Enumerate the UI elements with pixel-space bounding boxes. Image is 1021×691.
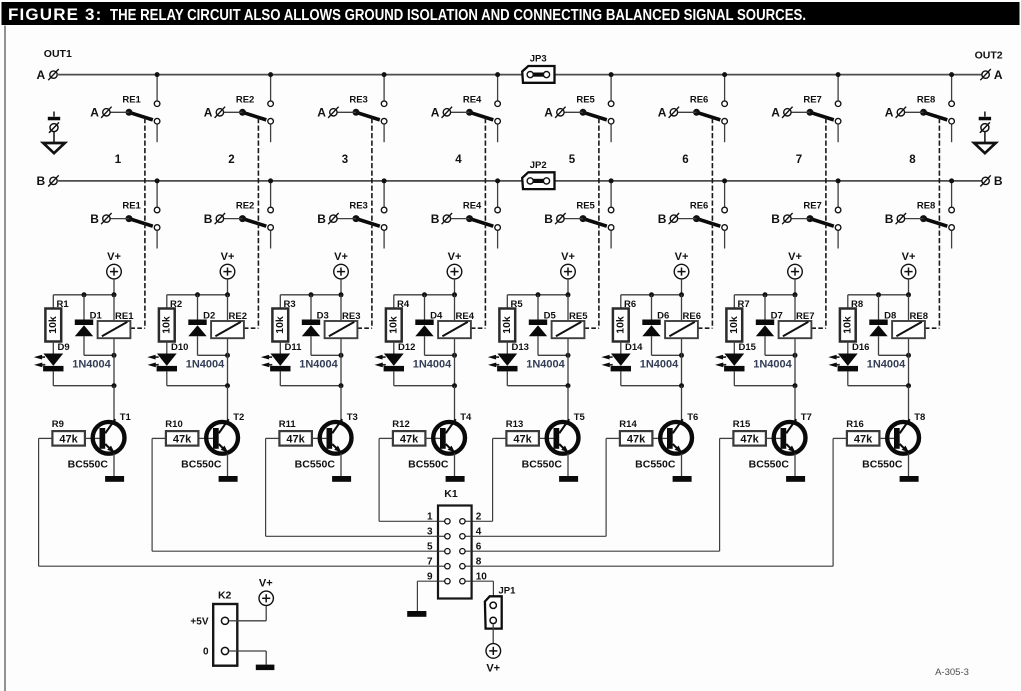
wire R16 to base	[879, 437, 894, 439]
ground bar T3	[332, 476, 351, 482]
ground bar T4	[446, 476, 465, 482]
svg-text:1N4004: 1N4004	[640, 358, 679, 370]
junction dots top rail	[763, 292, 768, 297]
relay coil RE6	[665, 295, 698, 356]
relay contact RE2 (A pole)	[215, 101, 274, 142]
wire emitter to ground	[567, 453, 569, 476]
svg-text:RE3: RE3	[342, 311, 360, 322]
svg-text:JP3: JP3	[530, 54, 547, 65]
svg-text:RE1: RE1	[122, 94, 141, 105]
svg-text:10k: 10k	[501, 316, 513, 334]
svg-text:R3: R3	[284, 299, 296, 310]
wire D7 to coil bottom	[765, 354, 795, 356]
wire R9 to base	[85, 437, 100, 439]
mechanical link dashes RE7	[825, 118, 827, 328]
wire coil to collector	[794, 355, 796, 385]
relay coil RE7	[779, 295, 812, 356]
LED D11	[261, 354, 291, 372]
svg-text:FIGURE 3:: FIGURE 3:	[8, 5, 102, 24]
wire bus A left	[57, 74, 522, 76]
wire bus to contact RE7 A	[837, 75, 839, 101]
relay contact RE7 (A pole)	[782, 101, 841, 142]
wire LED to bottom rail	[847, 371, 849, 385]
ground bar T8	[900, 476, 919, 482]
wire R15 to base	[766, 437, 781, 439]
svg-text:R14: R14	[619, 419, 637, 430]
wire top rail channel 6	[621, 294, 682, 296]
wire bus to contact RE6 A	[724, 75, 726, 101]
svg-text:10k: 10k	[615, 316, 627, 334]
ground bar T5	[559, 476, 578, 482]
junction node bus A	[495, 72, 500, 77]
resistor R14	[620, 431, 653, 446]
resistor R1	[45, 309, 61, 342]
mechanical link dashes RE1	[144, 118, 146, 328]
wire K1 pin2 from R13 base	[492, 438, 494, 521]
wire V+ to rail	[227, 279, 229, 295]
wire base left	[379, 437, 393, 439]
svg-text:1N4004: 1N4004	[413, 358, 452, 370]
svg-text:BC550C: BC550C	[522, 459, 563, 471]
svg-text:OUT2: OUT2	[975, 49, 1003, 61]
svg-text:5: 5	[569, 154, 576, 166]
diode D7	[756, 295, 774, 356]
junction node bus B	[155, 178, 160, 183]
svg-text:D2: D2	[203, 310, 215, 321]
wire bus A right	[554, 74, 982, 76]
transistor T7	[774, 419, 806, 453]
resistor R2	[159, 309, 175, 342]
LED D12	[374, 354, 404, 372]
junction node bus A	[949, 72, 954, 77]
resistor R8	[840, 309, 856, 342]
transistor T4	[433, 419, 465, 453]
wire bottom rail channel 4	[394, 385, 455, 387]
mechanical link dashes RE3	[371, 118, 373, 328]
svg-text:A: A	[431, 106, 440, 120]
wire R8 to LED	[847, 342, 849, 354]
ground bar K2	[256, 665, 275, 671]
svg-text:D14: D14	[625, 342, 643, 353]
svg-text:1N4004: 1N4004	[299, 358, 338, 370]
relay contact RE5 (B pole)	[555, 207, 614, 248]
svg-text:RE8: RE8	[917, 201, 935, 212]
svg-text:BC550C: BC550C	[68, 459, 109, 471]
wire V+ to rail	[113, 279, 115, 295]
wire K2 +5V to V+	[237, 620, 266, 622]
resistor R7	[726, 309, 742, 342]
wire base left	[833, 437, 847, 439]
wire emitter to ground	[681, 453, 683, 476]
svg-text:BC550C: BC550C	[181, 459, 222, 471]
svg-text:JP2: JP2	[530, 160, 547, 171]
svg-text:D13: D13	[512, 342, 529, 353]
wire base left	[720, 437, 734, 439]
wire JP1 to V+	[492, 624, 494, 644]
wire coil to collector	[227, 355, 229, 385]
svg-text:T5: T5	[574, 412, 586, 423]
wire coil to collector	[908, 355, 910, 385]
svg-text:RE5: RE5	[569, 311, 588, 322]
junction dots top rail	[82, 292, 87, 297]
wire bottom rail channel 3	[280, 385, 341, 387]
relay coil RE5	[552, 295, 585, 356]
svg-text:RE7: RE7	[803, 94, 821, 105]
svg-text:R2: R2	[170, 299, 182, 310]
svg-text:D7: D7	[771, 310, 783, 321]
transistor T6	[660, 419, 692, 453]
svg-text:R8: R8	[851, 299, 863, 310]
svg-text:A: A	[544, 106, 553, 120]
junction dots top rail	[649, 292, 654, 297]
resistor R15	[733, 431, 766, 446]
svg-text:V+: V+	[259, 577, 273, 589]
wire base left	[152, 437, 166, 439]
resistor R3	[272, 309, 288, 342]
wire K1 pin5 from R10 base	[151, 438, 153, 551]
diode D8	[869, 295, 887, 356]
svg-text:7: 7	[427, 557, 433, 568]
svg-text:47k: 47k	[740, 433, 759, 445]
svg-text:R7: R7	[738, 299, 750, 310]
svg-text:2: 2	[228, 154, 234, 166]
ground bar T2	[219, 476, 238, 482]
wire D2 to coil bottom	[198, 354, 228, 356]
svg-text:B: B	[317, 212, 326, 226]
resistor R11	[279, 431, 312, 446]
svg-text:9: 9	[427, 572, 433, 583]
terminal OUT1 A	[50, 71, 57, 78]
svg-text:B: B	[90, 212, 99, 226]
svg-text:RE4: RE4	[456, 311, 475, 322]
wire R4 to LED	[393, 342, 395, 354]
svg-text:RE8: RE8	[910, 311, 928, 322]
wire V+ to rail	[454, 279, 456, 295]
svg-text:V+: V+	[486, 662, 500, 674]
wire base left	[606, 437, 620, 439]
svg-text:RE5: RE5	[576, 94, 595, 105]
svg-text:B: B	[544, 212, 553, 226]
svg-text:V+: V+	[902, 251, 916, 263]
LED D16	[828, 354, 858, 372]
svg-text:D4: D4	[430, 310, 443, 321]
svg-text:R6: R6	[624, 299, 636, 310]
wire R2 to LED	[166, 342, 168, 354]
transistor T2	[206, 419, 238, 453]
svg-text:RE1: RE1	[122, 201, 141, 212]
wire emitter to ground	[113, 453, 115, 476]
svg-text:5: 5	[427, 542, 433, 553]
svg-text:D12: D12	[398, 342, 415, 353]
svg-text:T6: T6	[687, 412, 698, 423]
svg-text:R1: R1	[57, 299, 70, 310]
wire R10 to base	[198, 437, 213, 439]
wire R11 to base	[312, 437, 327, 439]
junction node bus A	[382, 72, 387, 77]
wire K1 pin9 to ground	[417, 580, 447, 582]
svg-text:10k: 10k	[842, 316, 854, 334]
svg-text:T8: T8	[914, 412, 925, 423]
resistor R16	[847, 431, 880, 446]
wire top rail channel 7	[734, 294, 795, 296]
resistor R5	[499, 309, 515, 342]
wire V+ to rail	[567, 279, 569, 295]
svg-text:R11: R11	[279, 419, 297, 430]
wire R6 to LED	[620, 342, 622, 354]
wire D8 to coil bottom	[879, 354, 909, 356]
relay contact RE3 (B pole)	[328, 207, 387, 248]
relay coil RE3	[325, 295, 358, 356]
mechanical link dashes RE5	[598, 118, 600, 328]
svg-text:R13: R13	[506, 419, 523, 430]
relay contact RE1 (A pole)	[101, 101, 160, 142]
wire coil to collector	[454, 355, 456, 385]
resistor R12	[393, 431, 426, 446]
junction node bus A	[268, 72, 273, 77]
wire R3 to LED	[279, 342, 281, 354]
LED D10	[147, 354, 177, 372]
svg-text:B: B	[885, 212, 894, 226]
svg-text:K2: K2	[218, 590, 232, 602]
svg-text:RE1: RE1	[115, 311, 134, 322]
relay coil RE8	[892, 295, 925, 356]
svg-text:RE6: RE6	[683, 311, 701, 322]
svg-text:A: A	[204, 106, 213, 120]
wire LED to bottom rail	[279, 371, 281, 385]
junction node bus B	[268, 178, 273, 183]
svg-text:A: A	[771, 106, 780, 120]
junction dots top rail	[422, 292, 427, 297]
LED D15	[715, 354, 745, 372]
svg-text:10k: 10k	[728, 316, 740, 334]
relay contact RE4 (B pole)	[442, 207, 501, 248]
relay contact RE5 (A pole)	[555, 101, 614, 142]
connector K1	[438, 506, 472, 599]
wire K1 pin10 to JP1	[462, 580, 493, 582]
svg-text:RE4: RE4	[463, 94, 482, 105]
relay contact RE8 (B pole)	[896, 207, 955, 248]
svg-text:1N4004: 1N4004	[526, 358, 565, 370]
wire LED to bottom rail	[506, 371, 508, 385]
svg-text:R10: R10	[165, 419, 182, 430]
wire K1 pin3 from R11 base	[265, 438, 267, 536]
svg-text:V+: V+	[334, 251, 348, 263]
jumper JP1	[485, 596, 502, 628]
svg-text:V+: V+	[675, 251, 689, 263]
wire bus to contact RE2 A	[270, 75, 272, 101]
svg-text:V+: V+	[221, 251, 235, 263]
wire top rail channel 5	[507, 294, 568, 296]
junction node bus A	[722, 72, 727, 77]
wire emitter to ground	[340, 453, 342, 476]
junction node bus B	[949, 178, 954, 183]
svg-text:6: 6	[682, 154, 688, 166]
ground terminal right	[974, 112, 996, 154]
figure left border	[4, 26, 6, 691]
svg-text:47k: 47k	[627, 433, 646, 445]
svg-text:1N4004: 1N4004	[72, 358, 111, 370]
transistor T3	[320, 419, 352, 453]
wire top rail channel 2	[167, 294, 228, 296]
mechanical link dashes RE4	[484, 118, 486, 328]
svg-text:OUT1: OUT1	[44, 48, 72, 60]
svg-text:10: 10	[476, 572, 488, 583]
wire K2 0 to ground	[237, 650, 266, 652]
wire bottom rail channel 2	[167, 385, 228, 387]
wire V+ to rail	[681, 279, 683, 295]
svg-text:R16: R16	[846, 419, 863, 430]
diode D1	[75, 295, 93, 356]
svg-text:2: 2	[476, 512, 482, 523]
svg-text:1N4004: 1N4004	[753, 358, 792, 370]
wire K1 pin1 from R12 base	[378, 438, 380, 521]
resistor R6	[613, 309, 629, 342]
diode D2	[188, 295, 206, 356]
svg-text:B: B	[431, 212, 440, 226]
svg-text:10k: 10k	[274, 316, 286, 334]
svg-text:10k: 10k	[161, 316, 173, 334]
relay contact RE3 (A pole)	[328, 101, 387, 142]
wire emitter to ground	[908, 453, 910, 476]
svg-text:RE8: RE8	[917, 94, 935, 105]
svg-text:RE2: RE2	[236, 94, 254, 105]
svg-text:R9: R9	[52, 419, 64, 430]
svg-text:B: B	[771, 212, 780, 226]
wire top rail channel 8	[848, 294, 909, 296]
junction dots top rail	[876, 292, 881, 297]
svg-text:3: 3	[427, 527, 433, 538]
ground bar T7	[786, 476, 805, 482]
wire LED to bottom rail	[620, 371, 622, 385]
terminal OUT1 B	[50, 177, 57, 184]
wire bus B right	[554, 180, 982, 182]
svg-text:T2: T2	[233, 412, 244, 423]
svg-text:V+: V+	[107, 251, 121, 263]
svg-text:BC550C: BC550C	[635, 459, 676, 471]
svg-text:RE5: RE5	[576, 201, 595, 212]
svg-text:4: 4	[455, 154, 462, 166]
svg-text:B: B	[658, 212, 667, 226]
junction node bus B	[836, 178, 841, 183]
resistor R9	[52, 431, 85, 446]
svg-text:RE7: RE7	[803, 201, 821, 212]
wire bus to contact RE3 A	[383, 75, 385, 101]
svg-text:47k: 47k	[286, 433, 305, 445]
svg-text:8: 8	[476, 557, 482, 568]
wire top rail channel 1	[53, 294, 114, 296]
svg-text:0: 0	[203, 647, 209, 658]
svg-text:D10: D10	[171, 342, 188, 353]
svg-text:1N4004: 1N4004	[867, 358, 906, 370]
wire base left	[266, 437, 280, 439]
svg-text:D8: D8	[884, 310, 896, 321]
LED D9	[34, 354, 64, 372]
svg-text:BC550C: BC550C	[862, 459, 903, 471]
svg-text:RE6: RE6	[690, 94, 708, 105]
wire D4 to coil bottom	[425, 354, 455, 356]
junction dots top rail	[536, 292, 541, 297]
svg-text:V+: V+	[561, 251, 575, 263]
wire bottom rail channel 8	[848, 385, 909, 387]
wire K1 pin8 from R16 base	[832, 438, 834, 566]
svg-text:A-305-3: A-305-3	[935, 667, 969, 678]
svg-text:D11: D11	[285, 342, 303, 353]
power V+ K2	[259, 591, 273, 605]
svg-text:4: 4	[476, 527, 482, 538]
wire bus to contact RE3 B	[383, 181, 385, 207]
wire LED to bottom rail	[166, 371, 168, 385]
wire V+ to rail	[794, 279, 796, 295]
wire emitter to ground	[794, 453, 796, 476]
svg-text:D6: D6	[657, 310, 669, 321]
connector K2	[213, 604, 237, 666]
svg-text:A: A	[658, 106, 667, 120]
wire bus to contact RE8 B	[951, 181, 953, 207]
junction node bus A	[609, 72, 614, 77]
svg-text:BC550C: BC550C	[408, 459, 449, 471]
svg-text:RE3: RE3	[349, 94, 367, 105]
wire bus to contact RE1 B	[156, 181, 158, 207]
wire bottom rail channel 6	[621, 385, 682, 387]
wire V+ to rail	[340, 279, 342, 295]
svg-text:RE7: RE7	[796, 311, 814, 322]
transistor T8	[887, 419, 919, 453]
wire bus to contact RE4 A	[497, 75, 499, 101]
wire coil to collector	[567, 355, 569, 385]
ground bar T6	[673, 476, 692, 482]
svg-text:3: 3	[342, 154, 348, 166]
relay coil RE1	[98, 295, 131, 356]
transistor T1	[93, 419, 125, 453]
svg-text:T7: T7	[801, 412, 812, 423]
svg-text:RE2: RE2	[236, 201, 254, 212]
wire R7 to LED	[733, 342, 735, 354]
wire bus B left	[57, 180, 522, 182]
diode D3	[302, 295, 320, 356]
diode D4	[415, 295, 433, 356]
svg-text:RE2: RE2	[229, 311, 247, 322]
wire bus to contact RE2 B	[270, 181, 272, 207]
svg-text:D5: D5	[544, 310, 557, 321]
terminal OUT2 A	[982, 71, 989, 78]
svg-text:V+: V+	[448, 251, 462, 263]
wire R5 to LED	[506, 342, 508, 354]
LED D14	[601, 354, 631, 372]
wire bottom rail channel 5	[507, 385, 568, 387]
terminal OUT2 B	[982, 177, 989, 184]
wire D5 to coil bottom	[538, 354, 568, 356]
svg-text:B: B	[994, 174, 1003, 188]
svg-text:1: 1	[115, 154, 122, 166]
wire R12 to base	[425, 437, 440, 439]
diode D5	[529, 295, 547, 356]
svg-text:1: 1	[427, 512, 433, 523]
power V+ JP1	[486, 644, 501, 659]
relay contact RE6 (B pole)	[669, 207, 728, 248]
wire LED to bottom rail	[733, 371, 735, 385]
wire coil to collector	[340, 355, 342, 385]
svg-text:D3: D3	[317, 310, 329, 321]
junction node bus B	[495, 178, 500, 183]
svg-text:T1: T1	[120, 412, 132, 423]
svg-text:R15: R15	[733, 419, 751, 430]
wire LED to bottom rail	[393, 371, 395, 385]
jumper JP2	[522, 172, 554, 189]
wire coil to collector	[113, 355, 115, 385]
relay contact RE1 (B pole)	[101, 207, 160, 248]
svg-text:1N4004: 1N4004	[186, 358, 225, 370]
wire D1 to coil bottom	[84, 354, 114, 356]
